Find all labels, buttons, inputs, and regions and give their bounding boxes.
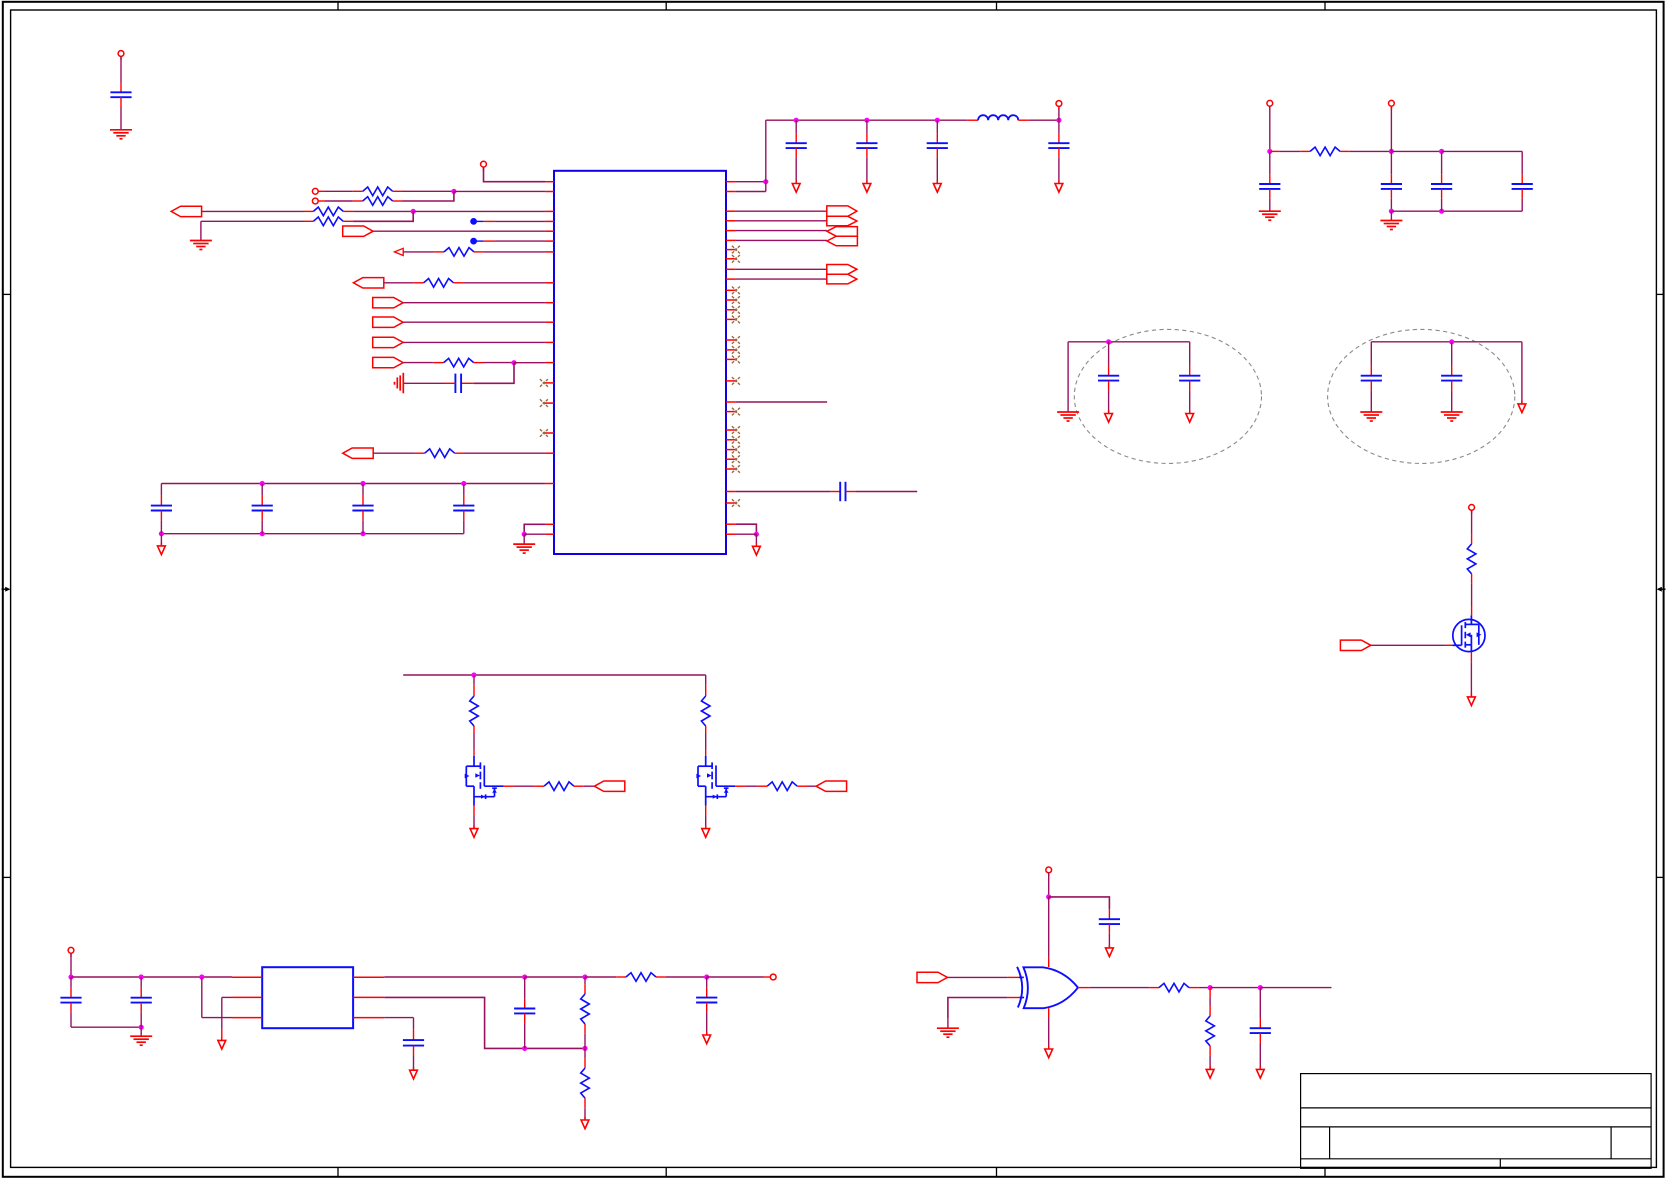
port PB1 (827, 206, 857, 216)
ground GND8 (1451, 390, 1453, 412)
resistor R5 (403, 251, 434, 253)
wire (525, 976, 585, 978)
dashed ellipse left (1074, 329, 1261, 463)
capacitor C18 (384, 1017, 413, 1019)
ground arrow (1108, 390, 1110, 413)
ground arrow (1048, 1046, 1050, 1050)
blue dot directive (470, 218, 477, 225)
junction (582, 1046, 587, 1051)
ground GND10 (947, 1018, 949, 1028)
wire (736, 533, 757, 535)
resistor R15 (585, 976, 616, 978)
wire (353, 211, 413, 221)
ground GND5 (1390, 211, 1392, 220)
port PB3 (827, 227, 858, 237)
wire (855, 491, 917, 493)
ground arrow (413, 1055, 415, 1070)
capacitor CT3 (936, 120, 938, 133)
no-connect X marks U1 right (732, 246, 740, 254)
ground arrow (1259, 1043, 1261, 1070)
power port P9 (1048, 873, 1050, 876)
ground arrow (1521, 401, 1523, 405)
resistor R10 (1471, 534, 1473, 544)
wire (736, 239, 827, 241)
ground GND11 sideways (395, 373, 404, 394)
blue dot directive (470, 238, 477, 245)
port PA3 (353, 278, 383, 288)
wire (1390, 199, 1392, 212)
wire (465, 452, 546, 454)
capacitor C17 (524, 977, 526, 999)
junction (582, 974, 587, 979)
resistor R4 (304, 220, 314, 222)
junction (1056, 118, 1061, 123)
wire (1210, 987, 1260, 989)
ground arrow (1058, 158, 1060, 184)
capacitor C14 (1451, 342, 1453, 366)
wire out rail (384, 976, 524, 978)
capacitor CB2 (261, 484, 263, 496)
junction (763, 179, 768, 184)
wire (524, 524, 545, 534)
junction (1258, 985, 1263, 990)
wire (222, 996, 232, 998)
transistor Q12 (696, 756, 728, 806)
wire (474, 240, 484, 242)
port PA8 (343, 448, 373, 458)
resistor R12b (716, 785, 735, 787)
ground arrow (706, 1012, 708, 1035)
resistor R18 (1078, 987, 1090, 989)
wire (463, 282, 545, 284)
junction (522, 1046, 527, 1051)
capacitor C13 (1370, 342, 1372, 366)
junction (794, 118, 799, 123)
power port P11 (318, 200, 325, 202)
wire (736, 278, 827, 280)
U2 pins (232, 977, 384, 1017)
ground GND4 (1269, 199, 1271, 211)
capacitor C8 (1390, 151, 1392, 174)
resistor R12a (705, 675, 707, 685)
port PA1 (171, 206, 201, 216)
port PB2 (827, 216, 857, 225)
wire (202, 1017, 232, 1019)
wire top rail (766, 119, 968, 121)
wire (524, 533, 545, 535)
capacitor CB3 (362, 484, 364, 496)
junction (1439, 149, 1444, 154)
ground arrow (473, 806, 475, 816)
ground arrow (795, 158, 797, 184)
arrow terminal (394, 248, 403, 255)
ground GND7 (1370, 390, 1372, 412)
wire (1521, 342, 1523, 404)
wire (1049, 897, 1110, 910)
wire (403, 302, 545, 304)
ground GND1 (110, 130, 132, 139)
no-connect X marks U1 left (540, 379, 548, 387)
wire (1371, 341, 1522, 343)
wire (666, 976, 707, 978)
power port P10 (318, 190, 325, 192)
power port P2 (483, 167, 485, 170)
wire (403, 341, 545, 343)
port PA6 (373, 337, 403, 347)
junction (139, 1025, 144, 1030)
junction (522, 532, 527, 537)
junction (260, 531, 265, 536)
wire (474, 363, 514, 384)
port PB4 (827, 236, 858, 246)
wire (736, 524, 757, 534)
capacitor C22 (736, 491, 831, 493)
port PC11 (584, 785, 595, 787)
wire (70, 953, 72, 977)
wire (403, 321, 545, 323)
wire (707, 976, 764, 978)
title block (1301, 1074, 1652, 1169)
junction (1389, 149, 1394, 154)
wire (1391, 150, 1441, 152)
wire (404, 382, 444, 384)
junction (159, 531, 164, 536)
wire cap bank top rail (161, 483, 545, 485)
junction (68, 974, 73, 979)
junction (451, 189, 456, 194)
junction (461, 481, 466, 486)
capacitor CB4 (463, 484, 465, 496)
wire cap bank bottom rail (161, 533, 463, 535)
ground arrow (584, 1109, 586, 1120)
capacitor C21 (1259, 988, 1261, 1019)
capacitor CT1 (795, 120, 797, 133)
wire (413, 210, 545, 212)
wire (484, 167, 546, 182)
resistor R7 (403, 362, 433, 364)
port PA5 (373, 317, 403, 327)
junction (1439, 209, 1444, 214)
ground GND3 (523, 534, 525, 544)
capacitor C20 (1108, 909, 1110, 919)
ground GND6 (1067, 342, 1069, 412)
junction (935, 118, 940, 123)
power port P6 (1471, 510, 1473, 513)
power port P8 (764, 976, 771, 978)
power port P3 (1058, 106, 1060, 120)
wire (120, 107, 122, 130)
ground arrow (221, 997, 223, 1029)
ground arrow (160, 534, 162, 546)
ground arrow (1108, 934, 1110, 948)
power port P1 (120, 56, 122, 59)
XOR ground pin (1048, 1008, 1050, 1018)
power port P5 (1390, 106, 1392, 151)
wire (705, 733, 707, 750)
resistor R6 (384, 282, 414, 284)
wire (1371, 644, 1446, 646)
wire (736, 181, 766, 183)
junction (260, 481, 265, 486)
junction (864, 118, 869, 123)
wire (948, 998, 1008, 1019)
wire (736, 401, 827, 403)
port PC1 (1340, 640, 1370, 650)
regulator U2 (262, 967, 353, 1028)
wire (1199, 987, 1210, 989)
wire (1350, 150, 1392, 152)
port PB6 (827, 274, 857, 284)
wire (1029, 119, 1059, 121)
wire (947, 976, 1007, 978)
junction (704, 974, 709, 979)
wire (454, 190, 546, 192)
wire (736, 210, 827, 212)
port PB5 (827, 265, 857, 275)
junction (511, 360, 516, 365)
wire (736, 220, 827, 222)
wire (736, 268, 827, 270)
capacitor C9 (1441, 151, 1443, 174)
resistor R11a (473, 675, 475, 685)
wire (71, 1026, 141, 1028)
wire (1048, 897, 1050, 957)
junction (199, 974, 204, 979)
inductor L1 (968, 119, 978, 121)
resistor R8 (373, 452, 415, 454)
wire (483, 251, 545, 253)
capacitor C7 (1269, 151, 1271, 174)
wire (1269, 106, 1271, 151)
wire (474, 220, 484, 222)
junction (360, 481, 365, 486)
resistor R19 (1209, 988, 1211, 998)
U1 left pins (544, 182, 554, 535)
wire rail (403, 674, 706, 676)
XOR gate G1 (1017, 967, 1022, 1008)
wire (484, 362, 515, 364)
power port P7 (70, 953, 72, 956)
wire (353, 210, 413, 212)
port PC12 (807, 785, 816, 787)
wire rail (71, 976, 232, 978)
junction (139, 974, 144, 979)
junction (1208, 985, 1213, 990)
junction (1449, 339, 1454, 344)
power port P4 (1269, 106, 1271, 109)
resistor R16 (584, 977, 586, 984)
wire (1048, 873, 1050, 897)
wire (403, 191, 454, 201)
junction (1106, 339, 1111, 344)
capacitor C6 (461, 382, 474, 384)
resistor R2 (325, 200, 353, 202)
capacitor C10 (1521, 151, 1523, 174)
wire bottom rail (1391, 210, 1522, 212)
ground arrow (755, 534, 757, 543)
port PA4 (373, 298, 403, 308)
wire (736, 230, 827, 232)
dashed ellipse right (1328, 329, 1515, 463)
resistor R17 (584, 1048, 586, 1058)
port PA7 (373, 357, 403, 367)
wire (403, 190, 454, 192)
capacitor CB1 (160, 484, 162, 496)
wire (1442, 150, 1523, 152)
resistor R3 (202, 210, 304, 212)
ground arrow (1189, 390, 1191, 413)
capacitor C16 (140, 977, 142, 988)
capacitor C12 (1189, 342, 1191, 366)
wire (1260, 987, 1331, 989)
junction (754, 532, 759, 537)
wire (473, 733, 475, 750)
wire (1471, 510, 1473, 534)
IC U1 (554, 171, 726, 554)
wire (765, 120, 767, 182)
resistor R11b (484, 785, 503, 787)
capacitor C11 (1108, 342, 1110, 366)
ground arrow (1209, 1056, 1211, 1070)
wire (1068, 341, 1190, 343)
ground arrow (705, 806, 707, 816)
wire (120, 56, 122, 82)
junction (1267, 149, 1272, 154)
wire (384, 997, 585, 1048)
port PC3 (917, 972, 947, 982)
border mid arrow right (1657, 587, 1666, 592)
ground arrow (1470, 652, 1472, 662)
wire (1471, 584, 1473, 606)
capacitor CT2 (866, 120, 868, 133)
junction (411, 209, 416, 214)
junction (1046, 894, 1051, 899)
wire (201, 220, 304, 222)
capacitor C1 (120, 83, 122, 93)
junction (471, 672, 476, 677)
resistor R1 (325, 190, 353, 192)
junction (1389, 209, 1394, 214)
wire (373, 230, 545, 232)
ground arrow (866, 158, 868, 184)
junction (522, 974, 527, 979)
ground GND2 (200, 221, 202, 240)
transistor Q1 (1471, 606, 1473, 616)
ground arrow (936, 158, 938, 184)
XOR input stubs (1008, 976, 1019, 978)
wire (514, 362, 545, 364)
resistor R9 (1270, 150, 1280, 152)
capacitor C19 (706, 977, 708, 988)
transistor Q11 (465, 756, 497, 806)
wire (736, 191, 766, 193)
ground GND9 (140, 1027, 142, 1036)
U1 right pins (726, 182, 736, 535)
capacitor CT4 (1058, 120, 1060, 133)
port PA2 (343, 226, 373, 236)
junction (360, 531, 365, 536)
capacitor C15 (70, 977, 72, 988)
border mid arrow left (2, 587, 11, 592)
